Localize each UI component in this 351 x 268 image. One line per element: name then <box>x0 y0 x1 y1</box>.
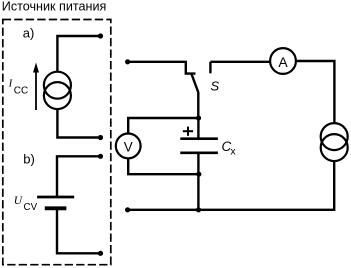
node: source a) minus terminal <box>98 135 103 140</box>
arrow: current direction for I_CC <box>33 63 39 111</box>
power supply dashed box <box>3 20 111 265</box>
wire: switch right contact to ammeter <box>210 61 269 63</box>
wire: battery bottom to terminal <box>57 210 101 253</box>
wire: top terminal to switch <box>128 61 187 63</box>
wire: voltmeter bottom lead <box>128 159 199 174</box>
ammeter A <box>270 48 296 74</box>
node: capacitor top junction <box>196 115 201 120</box>
node: source a) plus terminal <box>98 33 103 38</box>
node: source b) minus terminal <box>98 251 103 256</box>
svg-text:b): b) <box>23 152 35 167</box>
svg-text:V: V <box>124 139 133 154</box>
node: circuit top input terminal <box>125 59 130 64</box>
node: circuit bottom input terminal <box>125 207 130 212</box>
wire: right source bottom to bottom bus <box>128 161 335 210</box>
battery U_CV <box>37 197 74 208</box>
svg-text:a): a) <box>23 26 35 41</box>
svg-text:I: I <box>8 78 14 90</box>
svg-text:S: S <box>211 78 220 93</box>
wire: battery top to terminal <box>57 156 101 196</box>
capacitor C_x plates <box>180 139 218 153</box>
svg-text:U: U <box>14 195 23 207</box>
wire: current source bottom to terminal <box>57 109 100 138</box>
node: capacitor bottom junction <box>196 172 201 177</box>
wire: current source top to terminal <box>57 36 100 72</box>
node: source b) plus terminal <box>98 154 103 159</box>
current source I_CC (two overlapping circles) <box>44 72 71 109</box>
wire: capacitor branch vertical <box>197 118 199 138</box>
wire: ammeter to right corner and down <box>297 61 335 123</box>
svg-text:CC: CC <box>14 86 28 97</box>
node: bottom bus junction <box>196 207 201 212</box>
svg-text:Источник питания: Источник питания <box>2 0 107 14</box>
voltmeter V <box>116 134 141 159</box>
current source right (two overlapping circles) <box>321 123 348 161</box>
switch S <box>186 62 211 118</box>
svg-text:х: х <box>230 146 236 158</box>
wire: voltmeter top lead <box>128 118 198 133</box>
svg-text:А: А <box>278 54 288 70</box>
svg-text:CV: CV <box>24 202 38 213</box>
label: plus polarity mark <box>183 127 193 136</box>
